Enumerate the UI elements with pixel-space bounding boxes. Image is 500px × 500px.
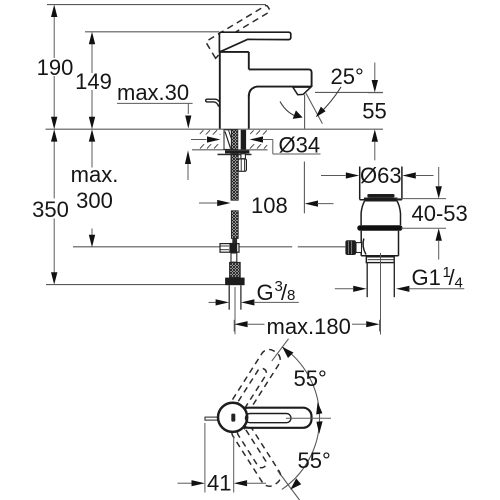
svg-text:8: 8 (287, 287, 295, 304)
svg-text:4: 4 (455, 275, 463, 292)
svg-text:G: G (257, 280, 274, 305)
svg-text:41: 41 (207, 471, 231, 496)
svg-text:55: 55 (362, 99, 386, 124)
svg-text:55°: 55° (298, 448, 331, 473)
svg-text:Ø34: Ø34 (279, 133, 321, 158)
svg-text:Ø63: Ø63 (360, 163, 402, 188)
svg-text:55°: 55° (294, 366, 327, 391)
svg-text:108: 108 (251, 193, 288, 218)
svg-text:max.30: max.30 (117, 80, 189, 105)
svg-text:350: 350 (32, 197, 69, 222)
svg-text:190: 190 (37, 55, 74, 80)
svg-text:300: 300 (76, 188, 113, 213)
svg-text:max.: max. (71, 162, 119, 187)
svg-text:40-53: 40-53 (412, 201, 468, 226)
svg-text:25°: 25° (331, 64, 364, 89)
svg-text:149: 149 (75, 69, 112, 94)
svg-text:G1: G1 (412, 265, 441, 290)
svg-text:max.180: max.180 (267, 314, 351, 339)
